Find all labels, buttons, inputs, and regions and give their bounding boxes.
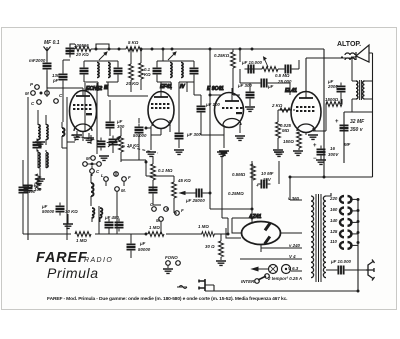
svg-text:20 KΩ: 20 KΩ	[75, 52, 89, 57]
capacitor 130 pF	[52, 71, 68, 84]
capacitor padder bold	[33, 139, 42, 152]
capacitor IFT1 secondary	[114, 65, 123, 78]
tube EBC41	[207, 86, 244, 128]
svg-text:IV: IV	[180, 84, 185, 90]
svg-text:EF41: EF41	[160, 84, 172, 90]
capacitor μF 100 (det)	[197, 95, 221, 125]
resistor 100566 20 KΩ	[74, 43, 91, 57]
svg-text:P: P	[30, 82, 33, 87]
capacitor uF 300 (EBC plate bypass)	[237, 83, 255, 106]
svg-text:RADIO: RADIO	[84, 257, 113, 264]
svg-text:M: M	[156, 218, 160, 223]
dial lamp	[282, 265, 291, 274]
coil L5 padder (bold)	[62, 122, 65, 142]
wire bottom bus	[28, 234, 228, 240]
wire IFT1 to tube2	[85, 49, 179, 154]
svg-text:125: 125	[330, 229, 338, 234]
speaker voice coil	[345, 53, 355, 60]
svg-text:EL41: EL41	[285, 88, 297, 94]
wire tap bus	[205, 193, 358, 291]
svg-text:1 MΩ: 1 MΩ	[149, 225, 160, 230]
capacitor left edge	[19, 184, 36, 197]
svg-text:FONO: FONO	[165, 255, 178, 260]
svg-text:V 4: V 4	[289, 254, 296, 259]
svg-text:50000: 50000	[138, 247, 151, 252]
wire AVC line	[205, 193, 252, 209]
wire speaker loop	[341, 53, 373, 57]
svg-text:INTER.: INTER.	[241, 279, 255, 284]
tuning capacitor 2 (gang, mid) with arrow	[106, 119, 125, 132]
ground mid2	[274, 152, 284, 161]
resistor 50000 (tube2 screen)	[139, 49, 144, 90]
ground antenna coils	[35, 142, 45, 146]
wire B+ box	[290, 53, 373, 177]
svg-text:MF 0.1: MF 0.1	[44, 40, 60, 46]
wire AZ41 connections	[226, 209, 302, 252]
coil osc feedback (bold)	[91, 176, 94, 203]
mains taps 220	[329, 196, 360, 203]
secondary winding right	[323, 196, 326, 278]
svg-text:M: M	[86, 156, 90, 161]
capacitor IFT2 secondary	[190, 65, 199, 78]
svg-text:Primula: Primula	[47, 265, 99, 281]
squiggle mark	[177, 286, 187, 289]
wire IFT1 box	[84, 61, 118, 82]
pot wiper arrow + capacitor μF 25000	[180, 189, 206, 204]
coil L4 osc	[46, 153, 48, 168]
svg-text:45 KΩ: 45 KΩ	[177, 178, 191, 183]
coil L1 antenna	[38, 125, 40, 140]
switch cluster mid-left (C C M)	[83, 156, 131, 193]
svg-text:0.1 MΩ: 0.1 MΩ	[158, 168, 173, 173]
fuse 2 tempor 0.25 A	[255, 274, 302, 284]
junction dots on bus	[95, 48, 98, 51]
svg-text:50.000: 50.000	[133, 133, 147, 138]
svg-text:0.25MΩ: 0.25MΩ	[228, 191, 244, 196]
wire plate to output transformer	[306, 49, 352, 91]
ground tube1 cathode	[72, 131, 82, 139]
svg-text:MΩ: MΩ	[282, 128, 290, 133]
resistor 1 MΩ (left)	[75, 232, 91, 243]
svg-text:F: F	[128, 175, 131, 180]
svg-text:1 MΩ: 1 MΩ	[198, 224, 209, 229]
svg-text:M.: M.	[121, 188, 126, 193]
electrolytic 10 MF 25V	[256, 171, 274, 189]
ground mid1	[217, 152, 227, 156]
coil L3 osc	[38, 153, 40, 168]
resistor 1 MΩ (right)	[198, 224, 214, 236]
wire left col vert x14	[23, 160, 32, 234]
switch terminals P M C (left)	[25, 82, 63, 106]
capacitor IFT1 primary	[80, 65, 89, 78]
wire osc column	[63, 60, 70, 240]
capacitor μF 300	[175, 130, 202, 149]
capacitor mF 2000 (antenna series)	[29, 58, 52, 73]
svg-text:140: 140	[330, 218, 338, 223]
svg-text:350 v: 350 v	[350, 127, 364, 133]
svg-text:−: −	[313, 156, 317, 162]
svg-text:+: +	[335, 119, 339, 125]
svg-text:μF: μF	[267, 84, 274, 89]
wire AVC verticals	[222, 156, 279, 223]
svg-text:FAREF: FAREF	[36, 250, 88, 266]
capacitor 25 000 (coupling 2)	[240, 79, 292, 96]
svg-text:25V: 25V	[262, 177, 272, 182]
capacitor MF 0.1 (antenna coupling)	[44, 40, 75, 58]
svg-text:ALTOP.: ALTOP.	[337, 41, 361, 48]
wire AVC bus y49	[70, 49, 324, 56]
coil L2 antenna	[46, 125, 48, 140]
wire EF41 cathode	[151, 120, 170, 150]
wire coupling to EL41 grid	[278, 60, 299, 110]
svg-text:mF2000: mF2000	[29, 58, 46, 63]
ground EL41 cathode	[308, 135, 318, 139]
svg-text:30 KΩ: 30 KΩ	[65, 209, 78, 214]
mains taps 160	[330, 207, 360, 214]
resistor 0.025 MΩ	[276, 110, 292, 149]
switch terminals audio (C C M F)	[150, 202, 184, 223]
svg-text:v 240: v 240	[289, 243, 301, 248]
svg-text:MF: MF	[344, 142, 351, 147]
svg-text:M: M	[25, 91, 29, 96]
core	[316, 194, 321, 282]
capacitor μF 2000 (EL41 grid2)	[327, 79, 346, 96]
resistor 30 Ω	[205, 234, 223, 260]
wire tube2 plate to IFT2	[187, 77, 201, 95]
wire EL41 cathode	[306, 83, 342, 135]
svg-text:μF 300: μF 300	[186, 132, 201, 137]
ground EBC41	[219, 151, 229, 155]
coil IFT1 secondary 5000	[108, 63, 110, 78]
svg-text:KΩ: KΩ	[144, 72, 151, 77]
svg-text:μF 10.000: μF 10.000	[330, 259, 352, 264]
wire IFT2 box	[157, 61, 194, 82]
dashed gang line	[71, 135, 158, 153]
wire det bottom	[201, 130, 228, 234]
ground gang area	[99, 156, 109, 160]
ground 0.025	[273, 150, 283, 154]
coil IFT2 secondary	[181, 63, 183, 78]
resistor 150 Ω (EL41 cathode)	[283, 132, 301, 150]
mains earth	[366, 260, 375, 281]
svg-text:L: L	[101, 173, 104, 178]
ground EF41 cathode	[146, 152, 156, 156]
svg-text:10 MF: 10 MF	[261, 171, 274, 176]
svg-text:20 KΩ: 20 KΩ	[125, 81, 139, 86]
svg-text:0.5 MΩ: 0.5 MΩ	[275, 73, 290, 78]
tuning gang capacitor C2	[97, 136, 121, 151]
capacitor mid-left	[92, 208, 102, 218]
resistor osc grid	[36, 174, 41, 190]
ground below 16MF	[316, 157, 326, 164]
mains taps 110	[330, 239, 360, 249]
resistor 5 KΩ	[126, 40, 142, 51]
wire left column	[28, 88, 47, 234]
capacitor μF 50000 (audio)	[127, 234, 151, 258]
capacitor 16 MF 300V	[313, 143, 339, 162]
svg-text:ECH42: ECH42	[86, 86, 102, 92]
svg-text:32 MF: 32 MF	[350, 119, 365, 125]
svg-text:300V: 300V	[328, 152, 339, 157]
svg-text:30 Ω: 30 Ω	[205, 244, 215, 249]
resistor 0.5 MΩ (grid leak)	[257, 67, 290, 78]
capacitor μF 10.000 (mains)	[326, 259, 366, 275]
ground diode load	[235, 136, 245, 140]
tube EF41	[148, 82, 185, 129]
svg-text:110: 110	[330, 239, 338, 244]
capacitor 32 MF 350V	[335, 119, 365, 144]
resistor 20 KΩ (screen dropper)	[125, 49, 139, 92]
trimmer arrow IFT2	[168, 52, 176, 60]
capacitor μF 50000 (osc)	[41, 203, 65, 216]
coil IFT1 primary 5000	[97, 63, 99, 78]
wire det to EBC grid	[201, 49, 240, 193]
wire EBC plate up	[233, 69, 257, 95]
capacitor (tone, to grid)	[282, 65, 295, 74]
wire antenna to grid bus	[46, 57, 48, 88]
tuning capacitor 1 (gang, left)	[24, 176, 42, 200]
arrow to lamps	[252, 267, 268, 271]
resistor 1 MΩ (mid)	[148, 225, 164, 236]
capacitor μF 50.000 mid	[133, 124, 147, 139]
wire osc to tube1	[62, 138, 124, 234]
svg-text:+: +	[256, 183, 259, 188]
ground osc	[63, 214, 73, 228]
svg-text:50000: 50000	[42, 209, 55, 214]
ground 30Ω	[216, 261, 226, 265]
capacitor μF 10.000 (coupling)	[241, 60, 263, 74]
resistor 0.25 KΩ (EBC41 plate)	[214, 49, 235, 80]
svg-text:μF 25000: μF 25000	[185, 198, 205, 203]
wire heater	[240, 245, 302, 271]
svg-text:16 KΩ: 16 KΩ	[127, 143, 140, 148]
svg-text:FAREF - Mod. Primula - Due gam: FAREF - Mod. Primula - Due gamme: onde m…	[47, 296, 288, 302]
resistor 2 KΩ (grid stopper)	[271, 103, 292, 112]
pilot lamp	[269, 265, 278, 274]
junction dots misc	[130, 48, 133, 51]
svg-text:F: F	[181, 208, 184, 213]
wire HV secondary top	[290, 177, 302, 200]
resistor 45 KΩ (volume pot)	[172, 176, 192, 205]
svg-text:μF 10.000: μF 10.000	[241, 60, 263, 65]
svg-text:0.25KΩ: 0.25KΩ	[214, 53, 230, 58]
ground tube1 grid	[84, 133, 94, 142]
svg-text:μF 100: μF 100	[205, 102, 220, 107]
output transformer T1	[352, 58, 373, 112]
ground osc coils	[35, 168, 45, 183]
mains taps 140	[330, 218, 360, 226]
mains plug	[199, 279, 214, 291]
svg-text:100: 100	[28, 189, 36, 194]
trimmer arrow IFT1	[99, 52, 107, 60]
resistor 16 KΩ	[119, 128, 141, 162]
svg-text:+: +	[313, 143, 317, 149]
svg-text:2 tempor² 0.25 A: 2 tempor² 0.25 A	[267, 276, 302, 281]
antenna	[44, 47, 51, 58]
ground EL41 cathode res	[293, 151, 303, 155]
wire grid column tube1	[47, 82, 98, 144]
svg-text:160: 160	[330, 207, 338, 212]
speaker cone	[356, 45, 369, 62]
trimmer arrow on resistor	[264, 57, 269, 67]
resistor 0.1 MΩ	[151, 156, 173, 186]
svg-text:5 KΩ: 5 KΩ	[128, 40, 139, 45]
resistor 0.5 MΩ (vertical)	[232, 164, 255, 180]
FONO jack	[163, 255, 180, 273]
wire volume wiper column	[131, 258, 160, 268]
ground cap 300	[174, 150, 184, 154]
svg-text:2000: 2000	[327, 84, 338, 89]
svg-text:1 MΩ: 1 MΩ	[76, 238, 87, 243]
primary winding left	[311, 196, 314, 278]
wire EBC41 cathode	[224, 124, 240, 148]
mains taps 125	[330, 229, 360, 237]
coil IFT2 primary	[170, 63, 172, 78]
svg-text:0.5MΩ: 0.5MΩ	[232, 172, 246, 177]
ground uF300	[245, 107, 255, 111]
capacitor det bypass	[149, 184, 158, 197]
svg-text:220: 220	[329, 196, 338, 201]
svg-text:1500Ω: 1500Ω	[325, 97, 339, 102]
tube AZ41	[242, 214, 281, 245]
svg-text:pF: pF	[52, 78, 59, 83]
svg-text:16: 16	[330, 146, 335, 151]
wire mid column x146	[110, 100, 177, 234]
svg-text:100566: 100566	[74, 43, 89, 48]
svg-text:μF: μF	[139, 241, 146, 246]
svg-text:AZ41: AZ41	[248, 214, 261, 220]
resistor 1500 Ω	[325, 97, 342, 106]
svg-text:150Ω: 150Ω	[283, 139, 294, 144]
wire mains	[214, 285, 358, 291]
wire top link cap to bus	[70, 44, 109, 48]
tube ECH42	[70, 85, 109, 132]
capacitor IFT2 primary	[153, 65, 162, 78]
capacitor μF 450	[104, 215, 124, 232]
svg-text:v 360: v 360	[288, 196, 300, 201]
tube EL41	[285, 88, 321, 133]
